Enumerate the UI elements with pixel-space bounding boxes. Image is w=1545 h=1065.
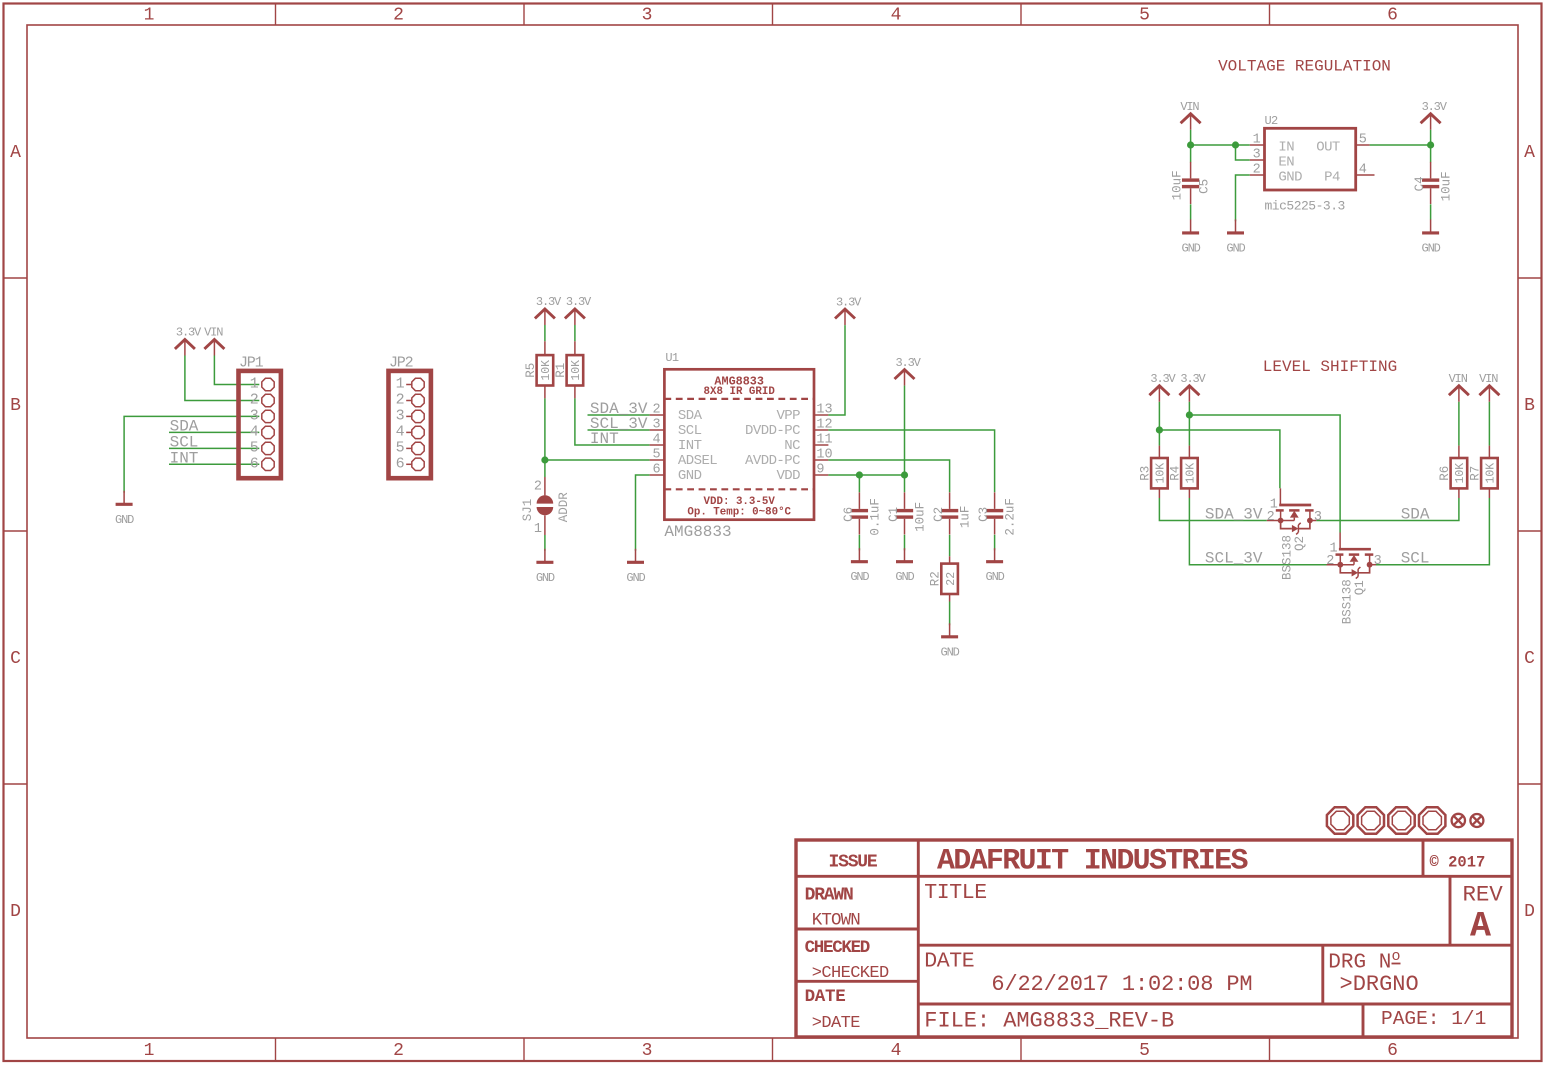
svg-text:2: 2 [393,1041,404,1061]
svg-text:2: 2 [534,479,542,494]
svg-text:DRAWN: DRAWN [805,886,853,906]
wire 3.3V to R4 / Q1 gate [1189,402,1340,533]
svg-text:JP1: JP1 [239,354,264,371]
svg-text:C2: C2 [932,507,946,522]
svg-text:B: B [10,396,21,416]
svg-text:3.3V: 3.3V [536,295,562,309]
U1 dashed separators [664,399,814,489]
svg-text:5: 5 [250,440,259,457]
svg-text:GND: GND [626,571,645,585]
svg-text:GND: GND [850,570,869,584]
svg-text:Q2: Q2 [1293,536,1307,551]
IC U1 AMG8833 [664,351,814,541]
svg-text:C5: C5 [1198,179,1212,194]
svg-text:GND: GND [1226,241,1245,255]
svg-text:GND: GND [678,468,702,484]
svg-text:TITLE: TITLE [924,881,987,905]
capacitor C1 10uF [887,492,928,534]
Adafruit logo pads [1327,807,1484,833]
svg-text:4: 4 [891,6,902,26]
resistor R6 10K [1458,402,1460,498]
capacitor C4 10uF [1413,162,1454,204]
wire C6 to GND [858,535,860,551]
svg-text:B: B [1524,396,1535,416]
svg-text:DVDD-PC: DVDD-PC [745,423,800,439]
svg-text:3.3V: 3.3V [1150,372,1176,386]
svg-text:GND: GND [115,513,134,527]
svg-text:A: A [10,143,21,163]
power 3.3V at JP1 [175,326,202,356]
svg-text:INT: INT [170,449,199,467]
title block [796,840,1512,1037]
svg-text:2: 2 [393,6,404,26]
wire net SDA_3V stub [588,414,650,416]
svg-text:mic5225-3.3: mic5225-3.3 [1265,199,1345,214]
svg-text:ADDR: ADDR [557,492,571,523]
svg-text:10uF: 10uF [1440,171,1454,201]
capacitor C3 2.2uF [977,492,1018,535]
svg-text:2: 2 [1326,554,1334,569]
connector JP2 [389,354,431,478]
svg-text:10K: 10K [540,360,553,381]
svg-text:3.3V: 3.3V [1180,372,1206,386]
svg-text:6: 6 [652,462,660,477]
wire net SCL at JP1 [169,447,259,449]
svg-text:6: 6 [250,456,259,473]
svg-text:SDA: SDA [678,408,703,424]
svg-text:3: 3 [1374,554,1382,569]
svg-text:VIN: VIN [1449,372,1468,386]
svg-text:GND: GND [1422,241,1441,255]
svg-text:ADSEL: ADSEL [678,453,717,469]
wire VIN to JP1 pin1 [214,356,259,385]
svg-text:FILE: AMG8833_REV-B: FILE: AMG8833_REV-B [924,1009,1174,1034]
svg-text:JP2: JP2 [389,354,413,371]
svg-text:6/22/2017 1:02:08 PM: 6/22/2017 1:02:08 PM [991,972,1252,997]
wire R2 to GND [949,602,951,626]
ground at JP1 pin3 [115,491,134,527]
svg-text:10uF: 10uF [1171,170,1185,200]
junction ADSEL [541,456,548,463]
svg-text:IN: IN [1278,139,1294,155]
ground under C5 [1182,219,1201,255]
svg-text:R4: R4 [1168,466,1182,481]
ground under R2 [941,623,960,659]
svg-text:9: 9 [816,462,824,477]
svg-text:22: 22 [945,572,958,586]
ground under U2 pin2 [1226,219,1245,255]
svg-text:6: 6 [396,456,405,473]
wire net INT at JP1 [169,463,259,465]
svg-text:EN: EN [1278,154,1294,170]
svg-text:VIN: VIN [1479,372,1498,386]
svg-text:6: 6 [1387,1041,1398,1061]
svg-text:CHECKED: CHECKED [805,938,870,958]
svg-text:3.3V: 3.3V [836,295,862,309]
power 3.3V at VPP [835,295,862,325]
svg-text:SCL: SCL [1401,550,1430,568]
solder jumper SJ1 ADDR [521,477,571,537]
svg-text:GND: GND [895,570,914,584]
svg-text:5: 5 [1139,6,1150,26]
svg-text:GND: GND [536,571,555,585]
svg-text:o: o [1392,948,1401,965]
power 3.3V at R1 [565,295,592,325]
ground under SJ1 [536,549,555,585]
svg-text:C6: C6 [842,507,856,522]
svg-text:AMG8833: AMG8833 [664,523,731,541]
power VIN [1180,100,1200,130]
wire VPP to 3.3V [828,325,845,415]
svg-text:OUT: OUT [1316,139,1340,155]
U1 left pin stubs [650,415,665,475]
svg-text:PAGE: 1/1: PAGE: 1/1 [1381,1008,1486,1030]
junction VDD/C6 [856,471,863,478]
svg-text:C: C [1524,649,1535,669]
svg-text:2: 2 [652,402,660,417]
svg-text:GND: GND [1278,169,1302,185]
wire net SCL_3V stub [588,429,650,431]
ground under U1 [626,549,645,585]
svg-text:4: 4 [891,1041,902,1061]
svg-text:8X8 IR GRID: 8X8 IR GRID [704,386,776,398]
svg-text:2: 2 [396,392,405,409]
U1 header text AMG8833 [704,374,776,398]
svg-text:5: 5 [1359,133,1367,148]
svg-text:C4: C4 [1413,176,1427,191]
svg-text:R6: R6 [1438,466,1452,481]
connector JP1 [239,354,281,478]
svg-text:D: D [10,902,21,922]
svg-text:U1: U1 [665,351,679,365]
svg-text:2: 2 [1253,163,1261,178]
wire net SDA_3V [1159,498,1266,521]
svg-text:VOLTAGE REGULATION: VOLTAGE REGULATION [1218,58,1391,76]
svg-text:KTOWN: KTOWN [812,911,860,931]
wire net SDA [1316,498,1459,521]
power VIN at R6 [1449,372,1469,402]
wire EN net [1236,145,1250,160]
wire JP1 pin3 to GND [124,416,259,492]
svg-text:10K: 10K [1155,463,1168,484]
svg-text:5: 5 [396,440,405,457]
wire 3.3V to R3 / Q2 gate [1159,402,1280,489]
svg-text:>CHECKED: >CHECKED [812,964,889,983]
svg-text:5: 5 [1139,1041,1150,1061]
transistor Q2 BSS138 [1267,488,1322,580]
svg-text:C1: C1 [887,507,901,522]
power 3.3V [1421,100,1448,130]
svg-text:SDA: SDA [1401,506,1430,524]
power VIN at R7 [1479,372,1499,402]
svg-text:>DRGNO: >DRGNO [1340,972,1419,997]
wire 3.3V output net [1370,130,1431,163]
ground under C1 [895,548,914,584]
wire 3.3V to R5 [544,325,546,341]
svg-text:Q1: Q1 [1353,580,1367,595]
svg-text:U2: U2 [1265,114,1279,128]
svg-text:4: 4 [250,424,259,441]
svg-text:3: 3 [652,417,660,432]
resistor R2 22 [949,556,951,601]
svg-text:ISSUE: ISSUE [828,853,877,873]
power 3.3V at VDD [895,356,922,386]
svg-text:NC: NC [784,438,800,454]
svg-text:INT: INT [590,430,619,448]
svg-text:5: 5 [652,447,660,462]
svg-text:1: 1 [1253,133,1261,148]
svg-text:3: 3 [1253,148,1261,163]
svg-text:3: 3 [1314,510,1322,525]
svg-text:1uF: 1uF [959,506,973,529]
svg-text:2.2uF: 2.2uF [1004,498,1018,536]
power 3.3V at R5 [535,295,562,325]
U1 footer text VDD spec [687,496,791,518]
IC U2 mic5225-3.3 [1250,114,1375,213]
svg-text:© 2017: © 2017 [1430,854,1486,872]
svg-text:6: 6 [1387,6,1398,26]
svg-text:GND: GND [1182,241,1201,255]
svg-text:VDD: VDD [776,468,800,484]
svg-text:2: 2 [250,392,259,409]
svg-text:1: 1 [534,522,542,537]
svg-text:DATE: DATE [924,950,974,974]
junction 3.3V/R4 [1186,411,1193,418]
svg-text:VIN: VIN [204,326,223,340]
ground under C6 [850,548,869,584]
svg-text:1: 1 [250,376,259,393]
power VIN at JP1 [204,326,224,356]
svg-text:3: 3 [642,1041,653,1061]
svg-text:INT: INT [678,438,702,454]
svg-text:10K: 10K [1185,463,1198,484]
wire C5 to GND [1190,204,1192,219]
svg-text:R7: R7 [1468,466,1482,481]
svg-text:3.3V: 3.3V [566,295,592,309]
U1 right pin stubs [814,415,828,475]
resistor R3 10K [1158,446,1160,498]
svg-text:AVDD-PC: AVDD-PC [745,453,800,469]
svg-text:10K: 10K [1454,463,1467,484]
capacitor C2 1uF [932,492,973,534]
svg-text:SCL: SCL [678,423,702,439]
svg-text:D: D [1524,902,1535,922]
svg-text:1: 1 [144,6,155,26]
wire VDD net [828,386,904,493]
svg-text:4: 4 [396,424,405,441]
junction 3.3V/R3 [1156,426,1163,433]
wire 3.3V to JP1 pin2 [185,356,259,401]
svg-text:VIN: VIN [1180,100,1199,114]
svg-text:Op. Temp: 0~80°C: Op. Temp: 0~80°C [687,506,791,518]
svg-text:R3: R3 [1138,466,1152,481]
junction 3.3V/C4 [1427,141,1434,148]
svg-text:SJ1: SJ1 [521,499,535,522]
svg-text:LEVEL SHIFTING: LEVEL SHIFTING [1263,358,1397,376]
wire U2 GND net [1236,175,1250,221]
junction VIN/C5 [1187,141,1194,148]
svg-text:C: C [10,649,21,669]
svg-text:VPP: VPP [776,408,800,424]
svg-text:3: 3 [396,408,405,425]
resistor R7 10K [1488,402,1490,498]
svg-text:DATE: DATE [805,987,846,1007]
svg-text:GND: GND [986,570,1005,584]
svg-text:R5: R5 [524,363,538,378]
svg-text:>DATE: >DATE [812,1014,860,1033]
wire C3 to GND [994,535,996,551]
svg-text:R1: R1 [554,363,568,378]
svg-text:3.3V: 3.3V [895,356,921,370]
wire 3.3V to R1 [574,325,576,341]
wire VIN net [1191,130,1250,163]
svg-text:10K: 10K [570,360,583,381]
wire C2 to R2 [949,535,951,557]
svg-text:4: 4 [652,432,660,447]
ground under C3 [986,548,1005,584]
svg-text:REV: REV [1463,882,1504,908]
ground under C4 [1422,219,1441,255]
wire net SCL [1376,498,1489,565]
svg-text:A: A [1524,143,1535,163]
transistor Q1 BSS138 [1326,533,1381,625]
svg-text:3.3V: 3.3V [176,326,202,340]
resistor R1 10K [574,341,576,398]
svg-text:3: 3 [642,6,653,26]
wire DVDD-PC to C3 [828,430,994,492]
capacitor C5 10uF [1171,162,1212,204]
resistor R5 10K [544,341,546,398]
wire AVDD-PC to C2 [828,460,949,492]
svg-text:A: A [1470,907,1491,947]
wire R1 to INT pin [575,398,650,445]
wire net SCL_3V [1189,498,1326,565]
svg-text:3: 3 [250,408,259,425]
power 3.3V at R3 [1149,372,1176,402]
wire net SDA at JP1 [169,431,259,433]
svg-text:R2: R2 [929,571,943,586]
svg-text:2: 2 [1267,510,1275,525]
wire C1 to GND [904,535,906,551]
svg-text:10K: 10K [1485,463,1498,484]
wire R5 to ADSEL and SJ1 [545,398,650,477]
wire SJ1 to GND [544,535,546,551]
svg-text:4: 4 [1359,163,1367,178]
resistor R4 10K [1188,446,1190,498]
junction VIN/EN [1232,141,1239,148]
svg-text:1: 1 [396,376,405,393]
svg-text:SDA_3V: SDA_3V [1205,506,1263,524]
svg-text:P4: P4 [1324,169,1340,185]
power 3.3V at R4 [1179,372,1206,402]
svg-text:ADAFRUIT INDUSTRIES: ADAFRUIT INDUSTRIES [937,845,1248,879]
svg-text:SCL_3V: SCL_3V [1205,550,1263,568]
svg-text:1: 1 [144,1041,155,1061]
capacitor C6 0.1uF [842,492,883,535]
svg-text:C3: C3 [977,507,991,522]
svg-text:3.3V: 3.3V [1422,100,1448,114]
wire C4 to GND [1430,204,1432,219]
svg-text:GND: GND [941,645,960,659]
svg-text:10uF: 10uF [913,502,927,532]
svg-text:0.1uF: 0.1uF [868,498,882,536]
junction VDD/C1 [901,471,908,478]
svg-text:11: 11 [816,432,832,447]
wire U1 GND pin to GND [636,475,650,551]
